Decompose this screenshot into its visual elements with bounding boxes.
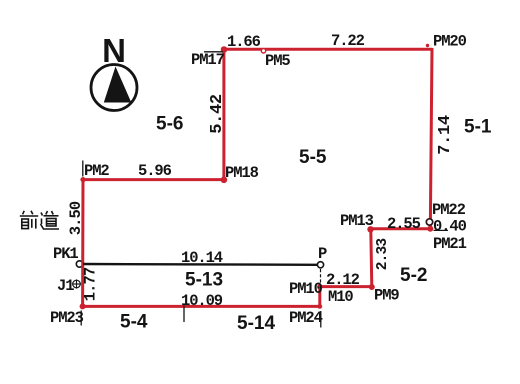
svg-text:7.22: 7.22 <box>331 32 365 50</box>
tick between 5-4 and 5-14 <box>183 306 185 323</box>
point PM23 <box>80 303 86 309</box>
svg-text:10.09: 10.09 <box>181 292 223 310</box>
svg-text:5-1: 5-1 <box>464 117 492 138</box>
svg-text:5-5: 5-5 <box>299 147 327 168</box>
svg-text:PK1: PK1 <box>53 245 78 263</box>
north arrow triangle <box>104 67 132 103</box>
tick right of PM23 <box>80 311 82 326</box>
svg-text:PM10: PM10 <box>289 280 323 298</box>
tick below PM24 <box>320 311 322 328</box>
wire boundary PM17-PM20 (top) <box>223 48 433 51</box>
wire boundary PM2-PM18 <box>82 178 225 181</box>
wire dotted tie P-PM10 <box>320 269 322 283</box>
svg-text:5.42: 5.42 <box>208 94 227 134</box>
point PM20 <box>426 44 429 47</box>
point PM18 <box>221 177 228 184</box>
svg-text:PM2: PM2 <box>84 162 109 180</box>
svg-text:PM20: PM20 <box>433 33 467 51</box>
svg-text:PM23: PM23 <box>50 309 84 327</box>
point PM10 <box>317 284 322 289</box>
svg-text:2.55: 2.55 <box>387 215 421 233</box>
svg-text:2.33: 2.33 <box>375 239 391 271</box>
svg-text:5-6: 5-6 <box>156 114 183 135</box>
svg-text:PM18: PM18 <box>225 164 259 182</box>
point PK1 <box>76 261 82 267</box>
tick overline PM17 <box>204 51 223 53</box>
svg-text:J1: J1 <box>57 277 74 295</box>
svg-text:2.12: 2.12 <box>326 271 360 289</box>
wire boundary PM9-PM10 <box>319 285 373 288</box>
wire boundary PM21-PM13 <box>370 227 432 230</box>
kanji 前 (road name first char) <box>20 211 38 229</box>
wire boundary PM20-PM22 (right) <box>430 48 432 230</box>
north arrow circle <box>91 65 137 111</box>
wire boundary PM13-PM9 <box>371 229 372 287</box>
svg-text:PM21: PM21 <box>433 235 467 253</box>
svg-text:0.40: 0.40 <box>433 218 467 236</box>
wire boundary PM10-PM24 <box>318 286 321 307</box>
wire survey line PK1-P (black) <box>83 263 317 266</box>
point PM22 (dark ring, reads like a 9 with line tail) <box>426 219 432 225</box>
svg-text:PM5: PM5 <box>265 52 290 70</box>
svg-text:PM22: PM22 <box>432 201 466 219</box>
svg-text:PM24: PM24 <box>289 309 323 327</box>
svg-text:5-13: 5-13 <box>185 270 223 291</box>
point PM17 <box>221 46 228 53</box>
point P <box>317 262 323 268</box>
wire boundary PM18-PM17 <box>222 48 225 181</box>
svg-text:1.66: 1.66 <box>227 33 261 51</box>
point PM24 <box>317 304 322 309</box>
svg-text:M10: M10 <box>328 288 353 306</box>
tick under 0.40 <box>434 229 449 231</box>
svg-text:5-14: 5-14 <box>237 313 275 334</box>
svg-text:5-2: 5-2 <box>400 265 427 286</box>
point PM9 <box>369 284 375 290</box>
point PM5 <box>261 49 265 53</box>
point PM2 <box>80 177 85 182</box>
tick above PM2 <box>82 161 84 177</box>
point PM21 <box>427 226 433 232</box>
wire boundary PM23-PM2 (left) <box>81 179 84 308</box>
svg-text:PM17: PM17 <box>191 51 225 69</box>
svg-text:5-4: 5-4 <box>120 312 148 333</box>
svg-text:5.96: 5.96 <box>138 162 172 180</box>
svg-text:1.77: 1.77 <box>82 267 100 301</box>
svg-text:7.14: 7.14 <box>436 115 455 155</box>
svg-text:3.50: 3.50 <box>67 201 85 235</box>
svg-text:PM9: PM9 <box>374 287 399 305</box>
kanji 道 (road) <box>41 211 60 229</box>
svg-text:PM13: PM13 <box>340 212 374 230</box>
point PM13 <box>367 226 373 232</box>
point J1 marker (circle-plus) <box>72 279 81 288</box>
svg-text:10.14: 10.14 <box>181 249 223 267</box>
wire boundary PM24-PM23 (bottom) <box>82 305 321 308</box>
svg-text:P: P <box>318 245 327 263</box>
